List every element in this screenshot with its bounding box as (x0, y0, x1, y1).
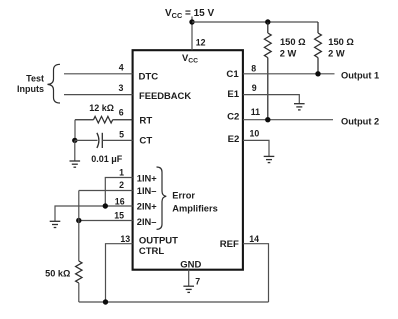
wire top supply rail (192, 21, 318, 23)
svg-text:2IN+: 2IN+ (137, 201, 157, 211)
wire junction down to ground (74, 140, 76, 161)
ground at pin 9 (294, 104, 305, 110)
svg-text:2: 2 (119, 180, 124, 190)
wire pin 7 GND stub (188, 270, 190, 287)
ground at pin 16 wire (50, 221, 61, 227)
ground at pin 10 (264, 156, 275, 162)
svg-text:Error: Error (172, 191, 195, 201)
svg-text:REF: REF (220, 239, 239, 250)
svg-text:E2: E2 (228, 134, 240, 145)
ground at pin 7 (183, 286, 194, 292)
node bottom rail junction dot (103, 299, 108, 304)
resistor R4 50 kohm (76, 261, 82, 283)
svg-text:50 kΩ: 50 kΩ (45, 269, 70, 279)
svg-text:2 W: 2 W (280, 48, 297, 58)
svg-text:2IN–: 2IN– (137, 217, 157, 227)
svg-text:1IN+: 1IN+ (137, 173, 157, 183)
wire CT row right of cap to pin 5 (102, 139, 132, 141)
svg-text:Inputs: Inputs (17, 84, 44, 94)
svg-text:CT: CT (139, 136, 152, 147)
node pin2-pin15 junction dot (76, 218, 81, 223)
ground at CT junction (70, 161, 81, 167)
wire left vertical from pin 2 down to 50k resistor (78, 191, 80, 262)
svg-text:8: 8 (251, 63, 256, 73)
svg-text:C2: C2 (227, 111, 239, 122)
svg-text:DTC: DTC (139, 71, 159, 82)
resistor R2 150 ohm (right) (315, 22, 322, 74)
svg-text:11: 11 (251, 107, 260, 117)
wire pin 12 vertical from VCC node to IC top (191, 17, 193, 51)
svg-text:GND: GND (180, 259, 201, 270)
wire CT row left of cap (75, 139, 98, 141)
wire pin 11 C2 output row (243, 119, 333, 121)
svg-text:13: 13 (120, 234, 130, 244)
wire 50k bottom lead to bottom rail (78, 283, 80, 302)
IC U1 TL494 outline (133, 50, 243, 270)
node R1 top junction dot (265, 19, 270, 24)
brace error amplifiers (157, 167, 167, 229)
svg-text:1IN–: 1IN– (137, 186, 157, 196)
wire pin 1 with corner down to pin 16 junction (105, 178, 132, 207)
svg-text:14: 14 (249, 234, 259, 244)
node R1 bottom junction dot on pin 11 wire (265, 117, 270, 122)
svg-text:1: 1 (119, 167, 124, 177)
svg-text:9: 9 (252, 83, 257, 93)
capacitor C1 0.01 uF (97, 133, 102, 148)
resistor R3 12 kohm with leads on pin 6 RT wire (75, 116, 133, 123)
svg-text:0.01 μF: 0.01 μF (91, 154, 123, 164)
wire pin 16 row to left ground (55, 206, 133, 221)
svg-text:2 W: 2 W (328, 48, 345, 58)
svg-text:15: 15 (114, 210, 124, 220)
svg-text:10: 10 (250, 129, 260, 139)
wire pin 3 FEEDBACK (64, 94, 133, 96)
wire pin 10 E2 to ground (243, 140, 269, 156)
svg-text:12 kΩ: 12 kΩ (89, 103, 114, 113)
node R2 bottom junction dot on pin 8 wire (315, 71, 320, 76)
svg-text:4: 4 (119, 63, 124, 73)
svg-text:FEEDBACK: FEEDBACK (139, 90, 191, 101)
svg-text:Test: Test (26, 73, 44, 83)
wire pin 4 DTC (64, 73, 133, 75)
node pin1-pin16 junction dot (103, 203, 108, 208)
svg-text:12: 12 (196, 38, 206, 48)
svg-text:Output 1: Output 1 (341, 70, 379, 80)
svg-text:16: 16 (115, 196, 125, 206)
wire bottom rail (79, 301, 269, 303)
wire pin 2 corner into left vertical (79, 190, 133, 192)
svg-text:6: 6 (119, 108, 124, 118)
svg-text:Output 2: Output 2 (341, 117, 379, 127)
svg-text:Amplifiers: Amplifiers (172, 203, 217, 213)
wire pin 13 OUTPUT CTRL with vertical down to bottom rail (106, 244, 133, 302)
wire pin 9 E1 to ground (243, 95, 299, 104)
wire pin 8 C1 output row (243, 73, 335, 75)
svg-text:C1: C1 (226, 69, 239, 80)
svg-text:RT: RT (139, 116, 152, 127)
wire RT vertical down to CT junction (74, 120, 76, 141)
svg-text:3: 3 (118, 83, 123, 93)
wire pin 15 row (79, 220, 133, 222)
svg-text:E1: E1 (227, 89, 239, 100)
brace for test inputs (48, 64, 61, 103)
resistor R1 150 ohm (left) (264, 22, 271, 120)
node VCC junction dot (189, 19, 194, 24)
node CT junction dot (72, 138, 77, 143)
svg-text:150 Ω: 150 Ω (328, 37, 354, 47)
svg-text:CTRL: CTRL (139, 246, 165, 257)
svg-text:7: 7 (195, 276, 200, 286)
svg-text:5: 5 (119, 130, 124, 140)
wire pin 14 REF loop to bottom rail (243, 244, 269, 302)
svg-text:150 Ω: 150 Ω (280, 37, 306, 47)
svg-text:OUTPUT: OUTPUT (139, 235, 178, 246)
